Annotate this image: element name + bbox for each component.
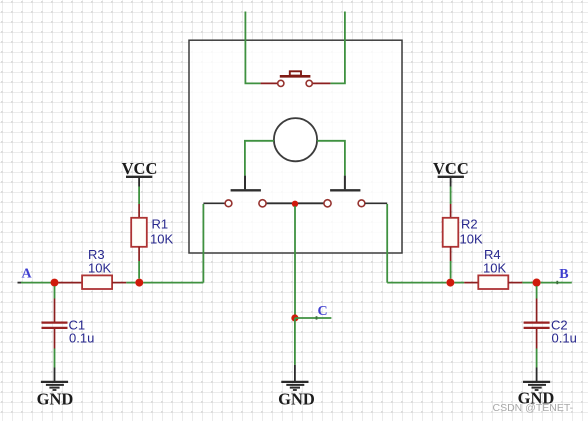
svg-text:R2: R2 (461, 216, 478, 231)
wire encoder right to R2 node (387, 282, 446, 284)
watermark (493, 402, 574, 414)
wire A horizontal (21, 282, 51, 284)
terminal connector line (266, 202, 323, 204)
svg-text:B: B (559, 267, 568, 282)
ground symbol center (278, 365, 315, 408)
node B anchor tick (556, 281, 558, 284)
VCC symbol right (433, 159, 469, 187)
terminal stub right (365, 202, 387, 204)
svg-text:10K: 10K (150, 232, 173, 247)
junction dot B (533, 279, 541, 287)
wire R2 to node (450, 261, 452, 279)
wire encoder right down (386, 204, 388, 283)
node A label (21, 267, 32, 282)
svg-text:CSDN @TENET-: CSDN @TENET- (493, 402, 574, 414)
svg-text:GND: GND (278, 389, 315, 408)
push button SW terminal circle 2 (306, 80, 312, 86)
wire C2 to GND (536, 349, 538, 368)
terminal circle pin B (358, 200, 365, 207)
capacitor C2 pin bottom (536, 329, 538, 349)
wire VCC left to R1 (138, 187, 140, 205)
wiper contact right stem (344, 176, 346, 190)
resistor R4 (478, 247, 508, 289)
svg-text:0.1u: 0.1u (69, 330, 94, 345)
terminal circle inner right (324, 200, 331, 207)
wire node to R4 (454, 282, 464, 284)
junction dot common (292, 201, 298, 207)
wire top-left into box (245, 12, 260, 84)
node C junction dot (291, 314, 298, 321)
push button SW actuator (290, 71, 301, 75)
push button pin 1 wire (261, 82, 278, 84)
svg-text:C: C (317, 304, 327, 319)
svg-text:VCC: VCC (433, 159, 469, 178)
wire B node down (536, 286, 538, 299)
wire A node down (54, 286, 56, 299)
wiper contact left stem (244, 176, 246, 190)
svg-text:10K: 10K (483, 260, 506, 275)
wire top-right into box (330, 12, 345, 84)
capacitor C1 (42, 318, 95, 346)
encoder shaft circle (274, 118, 317, 161)
resistor R4 pin left (464, 282, 478, 284)
resistor R1 pin bottom (138, 247, 140, 261)
push button SW bar (280, 75, 311, 78)
svg-text:10K: 10K (88, 260, 111, 275)
wire VCC right to R2 (450, 187, 452, 205)
node C anchor tick (316, 316, 318, 319)
VCC symbol left (122, 159, 158, 187)
wire node to encoder left (143, 282, 203, 284)
junction dot A (51, 279, 59, 287)
resistor R3 pin right (112, 282, 126, 284)
svg-text:A: A (21, 267, 32, 282)
wire shaft right (317, 141, 345, 176)
resistor R1 (131, 216, 173, 247)
wire encoder left down (202, 204, 204, 283)
svg-text:R1: R1 (152, 216, 169, 231)
resistor R4 pin right (508, 282, 522, 284)
junction dot R1/R3 (135, 279, 143, 287)
terminal circle inner left (259, 200, 266, 207)
terminal circle pin A (225, 200, 232, 207)
junction dot R2/R4 (446, 279, 454, 287)
wiper contact right bar (330, 189, 360, 191)
push button pin 2 wire (312, 82, 330, 84)
capacitor C2 pin top (536, 299, 538, 322)
push button SW terminal circle 1 (278, 80, 284, 86)
wire node C stub (295, 317, 332, 319)
svg-text:10K: 10K (460, 232, 483, 247)
wire R3 to R1 node (126, 282, 135, 284)
wire A end tip (18, 282, 22, 284)
terminal stub left (203, 202, 225, 204)
wire C to GND (294, 318, 296, 365)
wire R1 to node (138, 261, 140, 279)
ground symbol right (518, 368, 555, 408)
svg-text:0.1u: 0.1u (552, 330, 577, 345)
node B label (559, 267, 568, 282)
capacitor C1 pin bottom (54, 329, 56, 349)
resistor R1 pin top (138, 204, 140, 218)
resistor R2 pin top (450, 204, 452, 218)
wire encoder common down (294, 206, 296, 318)
resistor R3 (82, 247, 112, 289)
wire R4 to B node (522, 282, 532, 284)
wire shaft left (245, 141, 274, 176)
wire C1 to GND (54, 349, 56, 368)
resistor R2 (443, 216, 483, 247)
svg-text:GND: GND (37, 389, 74, 408)
svg-text:VCC: VCC (122, 159, 158, 178)
resistor R2 pin bottom (450, 247, 452, 261)
encoder body box (189, 40, 402, 253)
wire B stub (541, 282, 572, 284)
resistor R3 pin left (58, 282, 82, 284)
ground symbol left (37, 368, 74, 409)
wiper contact left bar (231, 189, 261, 191)
capacitor C1 pin top (54, 299, 56, 322)
node C label (317, 304, 327, 319)
capacitor C2 (524, 318, 577, 346)
